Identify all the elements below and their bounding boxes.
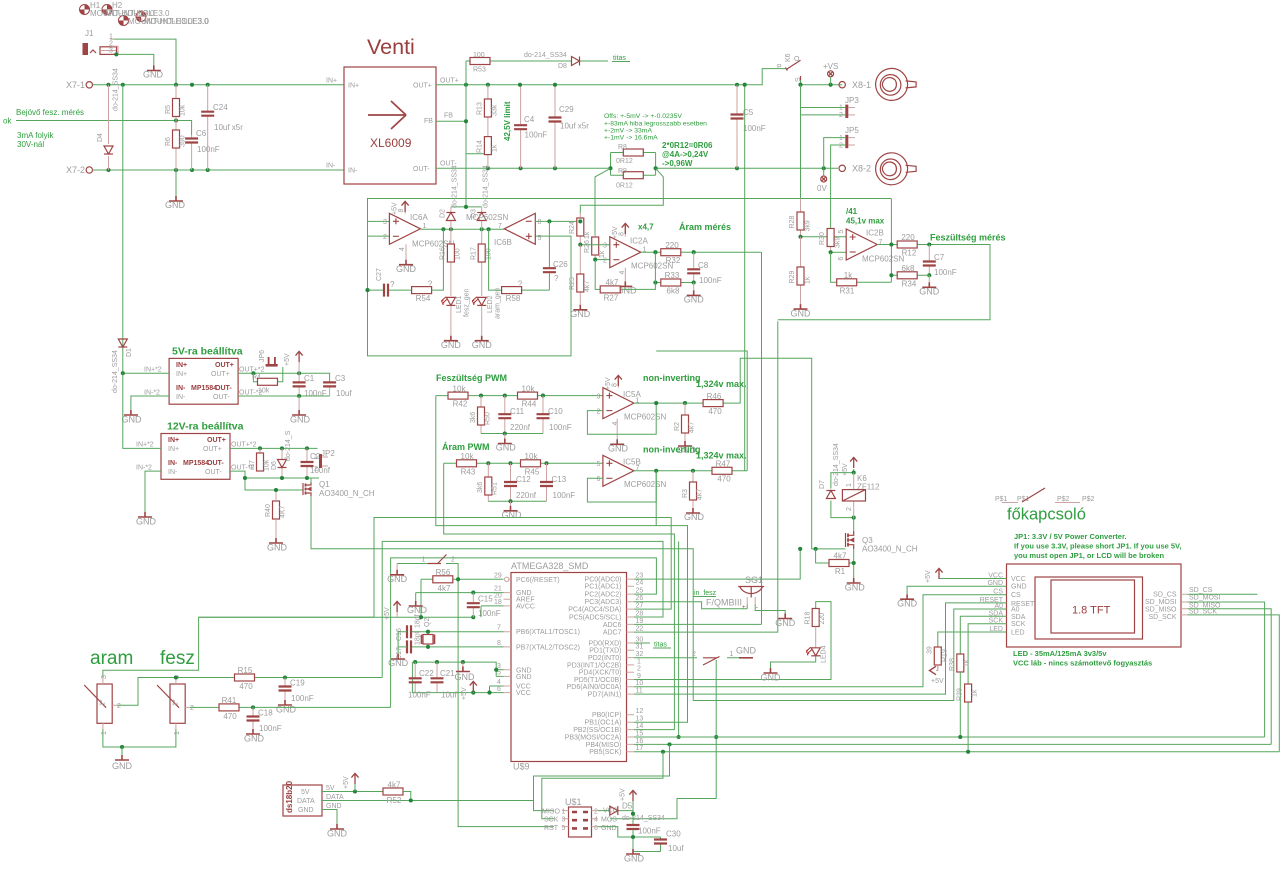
wire output [778, 199, 990, 320]
svg-text:JP5: JP5 [845, 126, 859, 135]
svg-text:R46: R46 [707, 392, 722, 401]
svg-text:P: P [777, 64, 782, 71]
svg-text:SD_MISO: SD_MISO [1145, 607, 1177, 614]
svg-text:100nF: 100nF [197, 145, 220, 154]
svg-text:C1: C1 [304, 374, 315, 383]
wire OUT- net [436, 167, 838, 169]
wire OUT- rail [238, 395, 330, 397]
svg-text:Q1: Q1 [319, 480, 330, 489]
svg-text:4: 4 [399, 247, 406, 251]
svg-text:CS: CS [1011, 592, 1021, 599]
wire pin23 to gate row [634, 549, 800, 579]
resistor R17 [481, 229, 483, 296]
mounting hole H4 [136, 12, 146, 22]
svg-text:do-214_S: do-214_S [285, 430, 292, 461]
svg-text:4k7: 4k7 [438, 584, 451, 593]
svg-text:GND: GND [608, 444, 629, 454]
svg-text:R50: R50 [485, 412, 492, 425]
svg-text:IC2B: IC2B [866, 229, 884, 238]
svg-text:+5V: +5V [461, 687, 468, 700]
svg-text:R24: R24 [569, 221, 576, 234]
svg-text:MCP602SN: MCP602SN [466, 213, 508, 222]
svg-text:33k: 33k [492, 104, 499, 116]
selector switch (aram) [97, 684, 112, 723]
wire SD_MISO [1188, 609, 1272, 745]
ground (C19) [278, 700, 292, 705]
svg-text:R31: R31 [840, 287, 855, 296]
svg-text:4k7: 4k7 [584, 281, 591, 292]
svg-text:OUT+: OUT+ [413, 83, 432, 90]
LED LED1 [441, 297, 455, 306]
svg-text:x4,7: x4,7 [638, 223, 654, 232]
svg-text:R52: R52 [387, 796, 402, 805]
wire SD_MOSI [1188, 602, 1265, 737]
svg-text:5: 5 [538, 235, 542, 242]
resistor R26 [594, 235, 596, 260]
svg-text:non-inverting: non-inverting [643, 373, 701, 383]
wire fesz-pwm bus (OC1A) [436, 396, 688, 723]
wire filter gnd rail [481, 433, 543, 435]
ground (input filter) [169, 196, 183, 201]
svg-text:GND: GND [570, 309, 591, 319]
svg-text:OUT-: OUT- [215, 385, 232, 392]
svg-text:J1: J1 [85, 29, 94, 38]
svg-text:R53: R53 [473, 67, 486, 74]
wire IN+ (12V) [123, 373, 161, 448]
svg-text:R5: R5 [165, 105, 172, 114]
wire GND pin [907, 586, 1006, 594]
wire aram pin3 up to bus [103, 617, 374, 677]
svg-text:5: 5 [838, 230, 845, 234]
svg-text:2: 2 [190, 705, 194, 712]
svg-text:R38: R38 [949, 658, 956, 671]
ground (reg5 out) [298, 396, 300, 410]
svg-text:12V-ra beállítva: 12V-ra beállítva [167, 421, 244, 433]
svg-text:10: 10 [636, 680, 644, 687]
svg-text:P$2: P$2 [1082, 496, 1095, 503]
svg-text:470: 470 [239, 682, 253, 691]
svg-text:FB: FB [424, 118, 433, 125]
ground (R2) [678, 441, 692, 446]
svg-text:PB2(SS/OC1B): PB2(SS/OC1B) [573, 727, 621, 734]
resistor R28 [800, 199, 802, 237]
svg-text:U$1: U$1 [565, 797, 582, 807]
svg-text:42,5V limit: 42,5V limit [503, 101, 512, 141]
wire JP5 pin2 down [831, 145, 846, 229]
svg-text:R32: R32 [666, 256, 681, 265]
capacitor C11 [504, 396, 506, 434]
svg-text:SCK: SCK [544, 817, 559, 824]
capacitor C21 [436, 662, 438, 693]
svg-text:Offs: +-5mV -> +-0.0235V: Offs: +-5mV -> +-0.0235V [604, 113, 682, 120]
wire common pin1 rail [103, 729, 176, 747]
ground (LED2) [475, 336, 489, 341]
transistor Q3 [846, 531, 854, 549]
svg-text:R54: R54 [416, 294, 431, 303]
svg-text:SCK: SCK [1011, 621, 1026, 628]
svg-text:6: 6 [594, 825, 598, 832]
svg-text:D2: D2 [440, 209, 447, 218]
svg-text:R41: R41 [222, 696, 237, 705]
svg-text:?: ? [554, 274, 559, 283]
capacitor C1 [298, 373, 300, 396]
resistor R42 [448, 392, 468, 399]
svg-text:IN+: IN+ [326, 78, 337, 85]
svg-text:D8: D8 [558, 63, 567, 70]
wire VCC [939, 578, 1007, 580]
svg-text:C29: C29 [559, 105, 574, 114]
svg-text:R28: R28 [789, 216, 796, 229]
wire FB clamp feed [451, 206, 482, 208]
svg-text:32: 32 [636, 651, 644, 658]
capacitor C22 [414, 662, 416, 693]
svg-text:3k9: 3k9 [835, 237, 842, 248]
resistor R29 [800, 237, 802, 304]
svg-text:10k: 10k [453, 385, 467, 394]
svg-text:100nF: 100nF [304, 389, 327, 398]
capacitor C17 [411, 646, 504, 648]
svg-text:LED: LED [1011, 630, 1025, 637]
+5V (relay) [850, 457, 857, 468]
svg-text:GND: GND [298, 807, 314, 814]
wire JP5 pin1 to X8-2 [824, 138, 846, 169]
resistor R54 [412, 287, 432, 294]
svg-text:R6: R6 [165, 137, 172, 146]
wire IC5A feedback [587, 403, 656, 434]
capacitor C7 [928, 245, 930, 276]
resistor R46 [703, 400, 723, 407]
svg-text:19: 19 [636, 618, 644, 625]
svg-text:LED4: LED4 [821, 645, 828, 663]
svg-text:GND: GND [244, 734, 265, 744]
svg-text:470: 470 [717, 475, 731, 484]
svg-text:aram_gen: aram_gen [495, 287, 502, 319]
wire IC5B out [634, 85, 747, 471]
wire gate node [814, 547, 818, 551]
resistor R58 [489, 229, 550, 290]
svg-text:4k7: 4k7 [388, 781, 401, 790]
resistor R38 [957, 654, 964, 672]
switch (pin32 int) [634, 657, 739, 659]
+VS pad [828, 71, 834, 77]
svg-text:GND: GND [396, 264, 417, 274]
resistor R52 [383, 788, 403, 795]
capacitor C18 [252, 707, 254, 729]
svg-text:390: 390 [180, 135, 187, 147]
svg-text:PD1(TXD): PD1(TXD) [589, 648, 621, 655]
svg-text:SD_CS: SD_CS [1153, 592, 1177, 599]
svg-text:OUT-: OUT- [413, 166, 430, 173]
svg-text:+: + [742, 605, 746, 611]
svg-text:3: 3 [603, 243, 607, 250]
diode D3 [481, 207, 483, 229]
svg-text:31: 31 [636, 644, 644, 651]
svg-text:GND: GND [165, 200, 186, 210]
svg-text:0R12: 0R12 [616, 183, 633, 190]
svg-text:do-214_SS34: do-214_SS34 [483, 165, 490, 208]
wire IC6B top pin [535, 220, 580, 222]
resistor R44 [518, 392, 538, 399]
wire IN- to GND [131, 396, 169, 410]
svg-text:+5V: +5V [392, 202, 399, 215]
svg-text:OUT-: OUT- [205, 469, 222, 476]
svg-text:4: 4 [594, 817, 598, 824]
op-amp IC6B [504, 213, 535, 244]
svg-text:PD4(XCK/T0): PD4(XCK/T0) [579, 670, 622, 677]
regulator MP1584 (5V) [169, 358, 238, 404]
svg-text:?: ? [518, 280, 523, 289]
svg-text:IN-*2: IN-*2 [144, 390, 160, 397]
sensor ds18b20 [283, 785, 322, 816]
mounting hole H3 [119, 16, 129, 26]
ground (switch common) [115, 755, 129, 760]
svg-text:1k: 1k [964, 659, 971, 667]
svg-text:13: 13 [636, 716, 644, 723]
wire ISP miso tap [534, 744, 670, 810]
svg-text:0R12: 0R12 [616, 158, 633, 165]
svg-text:C27: C27 [376, 268, 383, 281]
IC XL6009 [344, 67, 436, 184]
svg-text:PC2(ADC2): PC2(ADC2) [585, 592, 622, 599]
capacitor C29 [554, 85, 556, 169]
svg-text:K6: K6 [785, 53, 792, 62]
diode D4 [108, 85, 110, 170]
wire r41 bus [391, 558, 657, 708]
wire feedback box (IC2B output net) [368, 199, 892, 356]
+5V rail [199, 616, 474, 618]
LED LED2 [472, 297, 486, 306]
svg-text:22: 22 [636, 626, 644, 633]
wire pin18 avcc [481, 606, 504, 617]
wire below R6 to GND [175, 170, 177, 196]
svg-text:LED - 35mA/125mA 3v3/5v: LED - 35mA/125mA 3v3/5v [1013, 649, 1107, 658]
ground (J1) [147, 66, 161, 71]
resistor R39 [965, 684, 972, 702]
svg-text:5V: 5V [326, 785, 335, 792]
wire pin9 to R18 [634, 602, 831, 680]
svg-text:MOUNT-HOLE3.0: MOUNT-HOLE3.0 [144, 17, 209, 26]
resistor R53 [470, 58, 490, 65]
svg-text:+-1mV -> 16.6mA: +-1mV -> 16.6mA [604, 135, 658, 142]
ground (SG1) [778, 614, 792, 619]
svg-text:U$9: U$9 [513, 762, 530, 772]
wire long SPI sck line [634, 751, 1279, 753]
svg-text:GND: GND [326, 803, 342, 810]
svg-text:GND: GND [407, 605, 428, 615]
svg-text:27: 27 [636, 603, 644, 610]
svg-text:R13: R13 [477, 102, 484, 115]
svg-text:C6: C6 [196, 129, 207, 138]
svg-text:If you use 3.3V, please short: If you use 3.3V, please short JP1. If yo… [1014, 542, 1181, 551]
svg-text:30V-nál: 30V-nál [17, 140, 44, 149]
svg-text:4k7: 4k7 [606, 278, 619, 287]
ground (R3) [686, 508, 700, 513]
svg-text:GND: GND [455, 672, 476, 682]
svg-text:30: 30 [636, 636, 644, 643]
ground (crystal) [398, 632, 407, 654]
svg-text:/41: /41 [846, 207, 858, 216]
wire SCK to R39 [968, 624, 1006, 684]
diode D1 [122, 337, 124, 373]
capacitor C5 [736, 85, 738, 169]
svg-text:24: 24 [636, 580, 644, 587]
svg-text:VCC: VCC [516, 690, 531, 697]
svg-text:Áram mérés: Áram mérés [679, 222, 731, 232]
capacitor C4 [520, 85, 522, 169]
svg-text:1k: 1k [972, 689, 979, 697]
svg-text:6: 6 [597, 476, 601, 483]
svg-text:100nF: 100nF [259, 724, 282, 733]
svg-text:100nF: 100nF [408, 691, 431, 700]
svg-text:IN+*2: IN+*2 [144, 367, 162, 374]
resistor R27 [600, 286, 620, 293]
svg-text:GND: GND [845, 583, 866, 593]
svg-text:PD3(INT1/OC2B): PD3(INT1/OC2B) [567, 662, 621, 669]
wire -in [595, 259, 610, 261]
wire long SPI mosi line [634, 736, 1265, 738]
resistor R7 [259, 448, 261, 471]
svg-text:8: 8 [612, 383, 619, 387]
svg-text:100: 100 [455, 248, 462, 260]
svg-text:IN+: IN+ [176, 371, 187, 378]
svg-text:OUT+: OUT+ [203, 446, 222, 453]
wire SD_SCK [1188, 615, 1280, 752]
svg-text:100nF: 100nF [525, 131, 548, 140]
svg-text:R12: R12 [902, 249, 917, 258]
svg-text:1*: 1* [173, 699, 180, 706]
svg-text:JP3: JP3 [845, 96, 859, 105]
svg-text:2: 2 [383, 234, 387, 241]
ground (IC6A pin4) [405, 244, 407, 259]
svg-text:+VS: +VS [823, 62, 838, 71]
sense wire right [580, 168, 663, 213]
svg-text:18pf: 18pf [415, 614, 422, 628]
svg-text:3mA folyik: 3mA folyik [17, 131, 54, 140]
port X8-1 [839, 82, 845, 88]
svg-text:OUT+: OUT+ [211, 371, 230, 378]
svg-text:IN-: IN- [176, 394, 186, 401]
resistor R6 [175, 121, 177, 171]
svg-text:C11: C11 [510, 407, 525, 416]
svg-text:C21: C21 [440, 669, 455, 678]
svg-text:D6: D6 [271, 461, 278, 470]
svg-text:R47: R47 [716, 460, 731, 469]
svg-text:Áram PWM: Áram PWM [442, 442, 490, 452]
capacitor C30 [660, 837, 662, 852]
svg-text:R2: R2 [674, 422, 681, 431]
svg-text:Q2: Q2 [424, 618, 431, 627]
svg-text:PD6(AIN0/OC0A): PD6(AIN0/OC0A) [567, 684, 622, 691]
diode D7 [831, 473, 854, 518]
svg-text:10k: 10k [180, 104, 187, 116]
svg-text:OUT+*2: OUT+*2 [231, 442, 257, 449]
diode D6 [281, 448, 283, 478]
svg-text:10uf: 10uf [336, 389, 352, 398]
svg-text:RST: RST [544, 825, 559, 832]
svg-text:R43: R43 [461, 468, 476, 477]
ground (vcc block) [462, 662, 464, 666]
svg-text:GND: GND [112, 761, 133, 771]
svg-text:do-214_SS34: do-214_SS34 [112, 350, 119, 393]
wire IC5A out [634, 358, 846, 549]
svg-text:A0: A0 [1011, 607, 1020, 614]
svg-text:LED2: LED2 [487, 295, 494, 313]
wire OUT- / lower rail [230, 471, 319, 490]
svg-text:4k7: 4k7 [697, 489, 704, 500]
wire IC6A -in [368, 235, 390, 237]
svg-text:titas: titas [654, 642, 667, 649]
svg-text:X7-2: X7-2 [66, 165, 85, 175]
wire J1 pin1 to X7-1 net [114, 39, 176, 85]
op-amp IC5B [603, 455, 634, 486]
svg-text:GND: GND [267, 543, 288, 553]
svg-text:PB5(SCK): PB5(SCK) [589, 749, 621, 756]
svg-text:1k: 1k [805, 276, 812, 284]
svg-text:100nF: 100nF [699, 276, 722, 285]
svg-text:220: 220 [901, 233, 915, 242]
wire aram-pwm bus (OC1B) [444, 463, 675, 729]
wire OUT+ rail (12V) [230, 447, 318, 449]
svg-text:GND: GND [761, 673, 782, 683]
svg-text:4k7: 4k7 [689, 422, 696, 433]
svg-text:P$2: P$2 [1057, 496, 1070, 503]
svg-text:220: 220 [819, 613, 826, 625]
wire fesz pin3 row R15 [176, 677, 382, 679]
capacitor C16 [411, 631, 504, 633]
svg-text:MOS: MOS [601, 817, 617, 824]
ground (Q3) [847, 578, 861, 583]
svg-text:OUT+: OUT+ [207, 437, 226, 444]
+5V (vcc block) [472, 688, 474, 693]
svg-text:JP1: 3.3V / 5V Power Converter: JP1: 3.3V / 5V Power Converter. [1014, 532, 1127, 541]
svg-text:R25: R25 [569, 277, 576, 290]
wire aram sense down [634, 623, 762, 625]
ground (IC5A) [616, 419, 618, 440]
svg-text:470: 470 [223, 712, 237, 721]
svg-text:JP6: JP6 [259, 350, 266, 362]
svg-text:C12: C12 [516, 475, 531, 484]
svg-text:GND: GND [684, 295, 705, 305]
svg-text:GND: GND [601, 825, 617, 832]
op-amp IC6A [389, 213, 420, 244]
svg-text:you must open JP1, or LCD will: you must open JP1, or LCD will be broken [1014, 551, 1164, 560]
svg-text:1k: 1k [492, 144, 499, 152]
svg-text:OUT+: OUT+ [440, 78, 459, 85]
wire pin26 to speaker plus [634, 602, 747, 609]
svg-text:D7: D7 [819, 480, 826, 489]
resistor R51 [487, 463, 489, 501]
svg-text:R17: R17 [471, 247, 478, 260]
wire OUT+ net [436, 69, 785, 85]
svg-text:FB: FB [444, 113, 453, 120]
wire SDA to R38 [960, 616, 1006, 654]
svg-text:IC5A: IC5A [623, 390, 641, 399]
wire aram sense (ADC6) [761, 252, 763, 624]
svg-text:5: 5 [562, 825, 566, 832]
wire pin22 ADC7 sense [634, 321, 778, 632]
svg-text:főkapcsoló: főkapcsoló [1007, 506, 1086, 524]
resistor R3 [692, 471, 694, 508]
wire fesz pwm row [436, 395, 603, 397]
svg-text:do-214_SS34: do-214_SS34 [452, 165, 459, 208]
resistor R47 [712, 467, 732, 474]
svg-text:3k6: 3k6 [477, 482, 484, 493]
svg-text:P$1: P$1 [1017, 496, 1030, 503]
svg-text:1*: 1* [100, 699, 107, 706]
svg-text:100: 100 [473, 52, 485, 59]
svg-text:5V: 5V [301, 789, 310, 796]
svg-text:IN-: IN- [176, 385, 186, 392]
